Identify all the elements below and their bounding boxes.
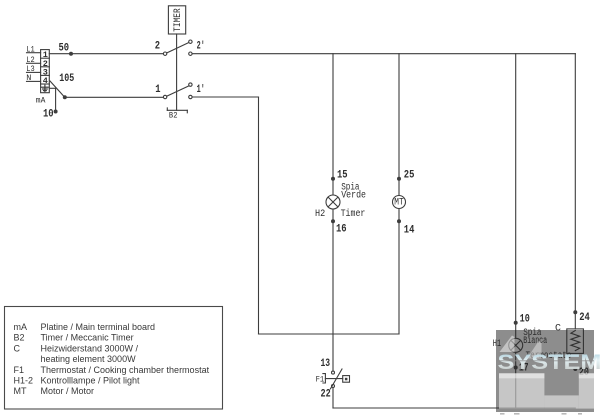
top bus wire from 2'	[192, 54, 575, 329]
svg-text:mA: mA	[36, 96, 46, 106]
svg-text:Verde: Verde	[341, 190, 366, 202]
svg-text:H1-2: H1-2	[14, 376, 34, 386]
junction dot wire 50	[69, 52, 73, 56]
label L2	[26, 55, 40, 65]
node 16	[331, 219, 335, 223]
svg-text:mA: mA	[14, 322, 28, 332]
svg-text:2: 2	[155, 41, 160, 53]
wire 105 diagonal from terminal 4	[50, 81, 65, 97]
middle bus wire	[259, 333, 400, 335]
terminal board mA	[41, 50, 50, 93]
svg-text:Motor / Motor: Motor / Motor	[41, 386, 95, 396]
thermostat F1 contact	[323, 369, 343, 389]
switch contact 2 (timer)	[163, 40, 192, 55]
svg-text:Kontrolllampe / Pilot light: Kontrolllampe / Pilot light	[41, 376, 141, 386]
svg-text:MT: MT	[394, 198, 403, 209]
label Spia Bianca	[523, 327, 547, 347]
heating element C	[567, 329, 584, 354]
svg-text:MT: MT	[14, 386, 27, 396]
svg-text:heating element 3000W: heating element 3000W	[41, 354, 137, 364]
node 24	[573, 310, 577, 314]
node 15	[331, 177, 335, 181]
mechanical link bracket B2	[167, 108, 187, 113]
svg-text:Thermostat / Cooking chamber t: Thermostat / Cooking chamber thermostat	[41, 365, 210, 375]
label N	[26, 73, 40, 83]
legend box	[5, 307, 223, 410]
svg-text:10: 10	[43, 108, 54, 120]
pilot light H2	[326, 195, 340, 209]
label L3	[26, 64, 40, 74]
svg-text:1: 1	[155, 84, 161, 96]
svg-text:10: 10	[520, 314, 530, 326]
watermark	[496, 330, 600, 415]
label L1	[26, 44, 40, 54]
svg-text:F1: F1	[14, 365, 25, 375]
svg-text:22: 22	[321, 388, 331, 400]
wire MT column	[398, 54, 400, 334]
motor MT	[393, 196, 406, 209]
node 25	[397, 177, 401, 181]
svg-text:B2: B2	[14, 333, 25, 343]
label Spia Verde	[341, 182, 366, 202]
node 20	[573, 367, 577, 371]
svg-text:25: 25	[404, 169, 415, 181]
timer box TIMER	[168, 6, 185, 34]
svg-text:2': 2'	[197, 41, 205, 53]
svg-text:Timer / Meccanic Timer: Timer / Meccanic Timer	[41, 333, 134, 343]
earth symbol	[42, 85, 49, 91]
wire 50 (L1 to timer contact 2)	[49, 53, 163, 55]
thermostat bulb	[343, 376, 350, 383]
switch contact 1 (timer)	[163, 83, 192, 99]
svg-text:SYSTEM: SYSTEM	[498, 351, 600, 374]
node 10 dot	[54, 110, 58, 114]
svg-text:24: 24	[579, 312, 590, 324]
wire from 1'	[192, 97, 258, 334]
svg-text:H2: H2	[315, 209, 325, 220]
legend text	[14, 322, 210, 396]
svg-text:C: C	[14, 343, 21, 353]
svg-text:F1: F1	[316, 375, 325, 385]
svg-text:1': 1'	[197, 84, 205, 96]
pilot light H1	[509, 338, 523, 352]
svg-text:15: 15	[337, 169, 348, 181]
wire from earth terminal (stub to node 10)	[49, 88, 55, 111]
timer actuating rod	[176, 34, 178, 110]
node 17	[514, 366, 518, 370]
node 10 (H1)	[514, 321, 518, 325]
svg-text:105: 105	[59, 73, 74, 85]
junction dot wire 105	[63, 95, 67, 99]
svg-text:Heizwiderstand 3000W /: Heizwiderstand 3000W /	[41, 343, 139, 353]
svg-text:50: 50	[59, 42, 70, 54]
wire 105 to timer contact 1	[65, 96, 164, 98]
wire H2 column	[332, 54, 334, 371]
wire F1 to bottom bus	[333, 388, 575, 409]
wire H1 column	[515, 54, 517, 408]
svg-text:TIMER: TIMER	[173, 8, 184, 32]
svg-text:B2: B2	[169, 111, 178, 121]
svg-text:Platine / Main terminal board: Platine / Main terminal board	[41, 322, 156, 332]
svg-text:Timer: Timer	[341, 208, 366, 220]
svg-text:16: 16	[336, 224, 347, 236]
node 14	[397, 219, 401, 223]
svg-text:13: 13	[321, 358, 331, 370]
svg-text:4: 4	[43, 76, 48, 86]
svg-text:14: 14	[404, 224, 415, 236]
